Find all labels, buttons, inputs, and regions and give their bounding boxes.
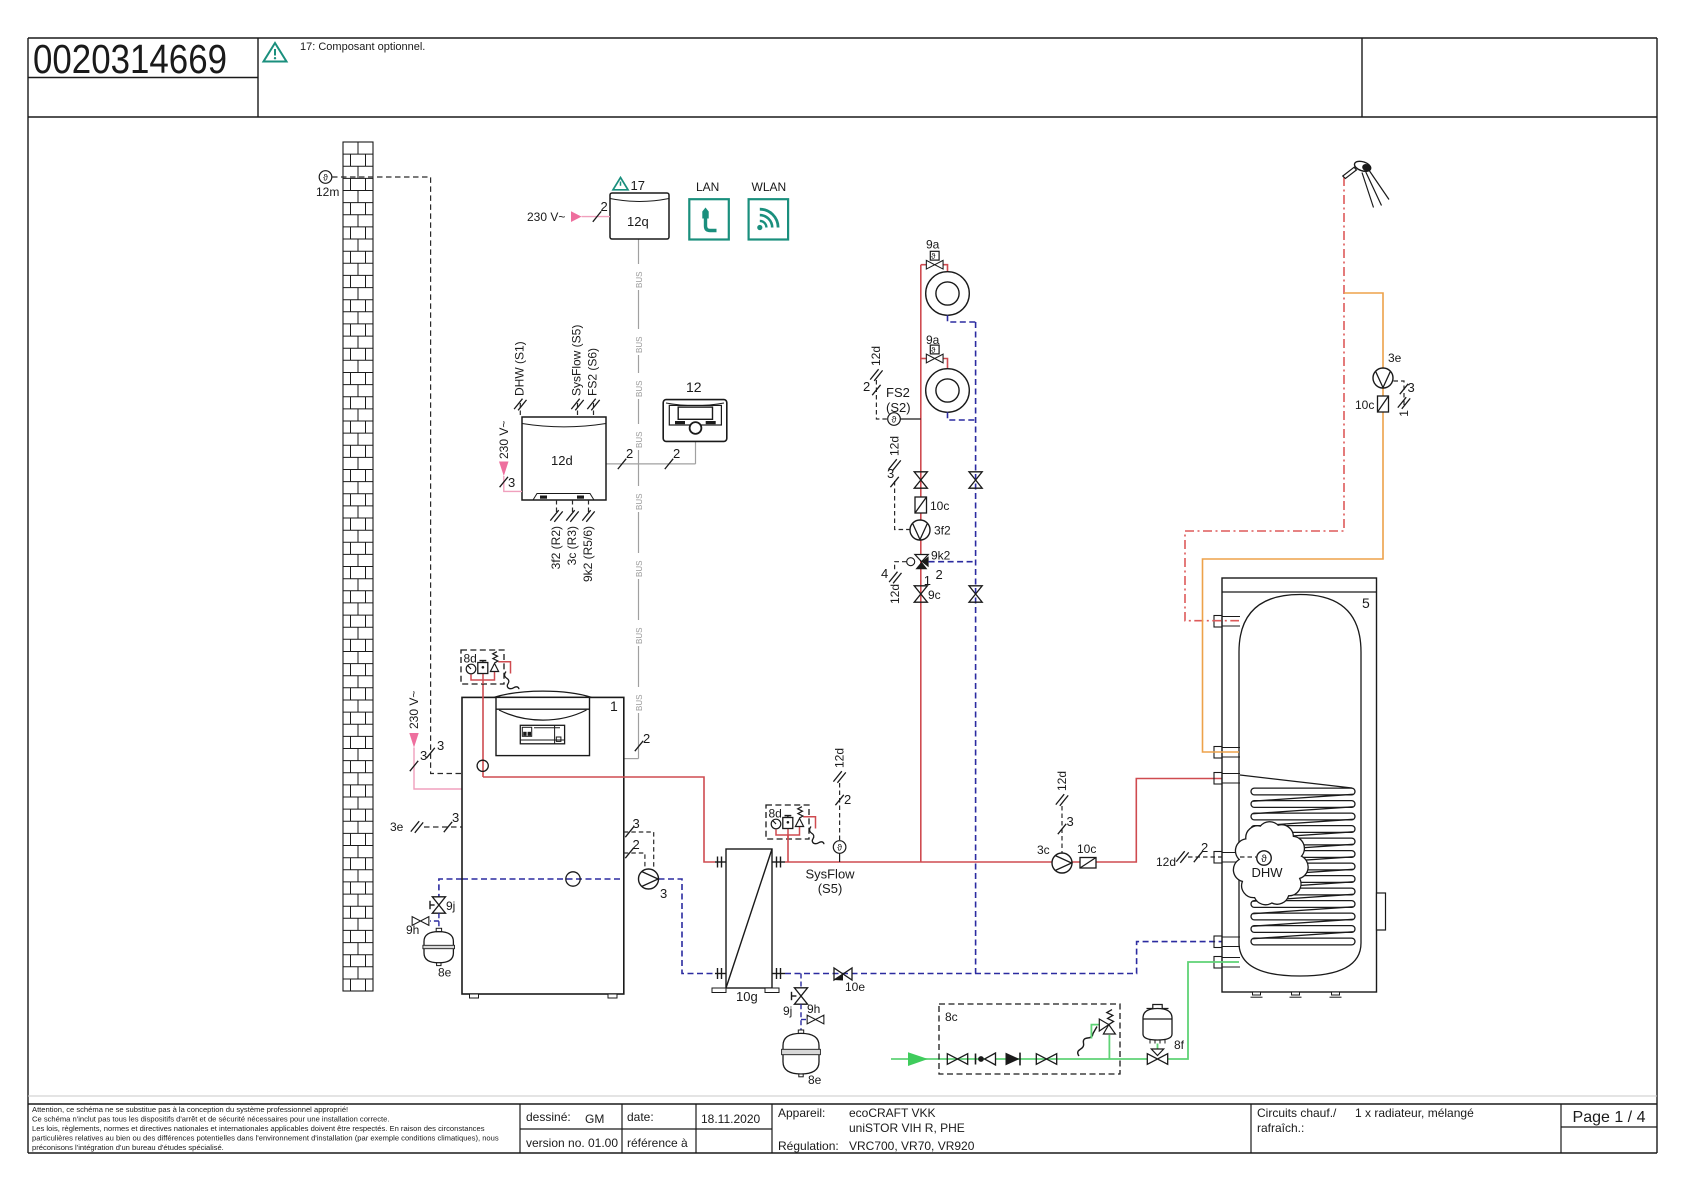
drain funnel (8c) [1078, 1027, 1097, 1057]
boiler return line (blue) through boiler [462, 878, 624, 880]
svg-text:9c: 9c [928, 588, 941, 602]
svg-text:3: 3 [508, 475, 515, 490]
warning triangle header [264, 43, 287, 62]
heater flange right side [1377, 893, 1386, 930]
title block small print [32, 1105, 499, 1152]
wire labels 3 / 1 at 3e [1394, 381, 1405, 408]
svg-text:3: 3 [1408, 380, 1415, 395]
valve 10c (flow to tank) [1077, 842, 1096, 868]
svg-text:Ce schéma n'inclut pas tous le: Ce schéma n'inclut pas tous les disposit… [32, 1115, 389, 1124]
svg-text:3f2: 3f2 [934, 524, 951, 538]
svg-text:2: 2 [633, 837, 640, 852]
svg-text:3e: 3e [390, 820, 404, 834]
svg-text:DHW (S1): DHW (S1) [513, 341, 527, 396]
cylinder 5 outer casing [1222, 578, 1377, 992]
svg-text:17: 17 [631, 178, 645, 193]
svg-text:3: 3 [887, 466, 894, 481]
svg-text:2: 2 [1201, 840, 1208, 855]
main return blue line HX to tank [785, 942, 1240, 974]
pump 3 control wires [624, 832, 654, 869]
check valve (8c) [976, 1053, 996, 1065]
main flow red line HX to tank [785, 861, 1080, 863]
boiler feet [470, 994, 479, 998]
svg-text:8e: 8e [438, 966, 452, 980]
12d top stub SysFlow (S5) [577, 403, 579, 417]
svg-text:17: Composant optionnel.: 17: Composant optionnel. [300, 41, 425, 53]
12d bottom stub 3c (R3) [572, 500, 574, 513]
svg-text:8e: 8e [808, 1073, 822, 1087]
svg-text:2: 2 [936, 567, 943, 582]
black circle on return inside boiler [566, 872, 580, 886]
svg-text:1: 1 [610, 698, 618, 714]
svg-text:FS2: FS2 [886, 385, 910, 400]
valve 9j (boiler) [432, 897, 445, 913]
radiator flow red riser [920, 265, 922, 862]
svg-text:12d: 12d [888, 584, 902, 604]
svg-text:VRC700, VR70, VR920: VRC700, VR70, VR920 [849, 1139, 975, 1153]
svg-text:12d: 12d [888, 436, 902, 456]
BUS labels [633, 264, 644, 713]
svg-text:particulières relatives au bie: particulières relatives au bien ou des d… [32, 1134, 499, 1143]
safety group 8d (boiler) [461, 650, 519, 689]
svg-text:LAN: LAN [696, 180, 719, 194]
cold water main (green) [891, 1058, 1147, 1060]
DHW circulation line (red dash-dot) [1185, 177, 1344, 621]
radiator 2 supply stub [921, 358, 927, 360]
svg-text:2: 2 [863, 379, 870, 394]
wire label 2 on 12d-12 line left [618, 459, 626, 469]
svg-text:3: 3 [1067, 814, 1074, 829]
title block top [28, 1103, 1657, 1105]
svg-text:BUS: BUS [635, 494, 644, 510]
valve 9c [914, 586, 927, 602]
backflow preventer (8c) [1006, 1053, 1021, 1066]
svg-text:3c (R3): 3c (R3) [565, 526, 579, 565]
warning 17 above 12q [613, 178, 628, 190]
svg-text:WLAN: WLAN [752, 180, 787, 194]
heat exchanger 10g [712, 849, 785, 993]
svg-text:2: 2 [626, 446, 633, 461]
thermostatic valve 9a (rad 2) [926, 354, 943, 363]
room unit 12 [663, 379, 727, 441]
valve 10e on return [834, 968, 865, 994]
connection stub cold water (green) [1214, 957, 1240, 969]
valve (8c shutoff 1) [947, 1054, 967, 1065]
svg-text:9k2: 9k2 [931, 549, 951, 563]
svg-text:Les lois, règlements, normes e: Les lois, règlements, normes et directiv… [32, 1124, 485, 1133]
wire 12m to boiler (dashed) [332, 177, 462, 774]
svg-text:DHW: DHW [1251, 865, 1283, 880]
radiator return blue riser [975, 322, 977, 974]
svg-text:préconisons l'intégration d'un: préconisons l'intégration d'un bureau d'… [32, 1143, 224, 1152]
red drop from 8d to main line [787, 835, 789, 862]
control wire to 3c [1061, 806, 1063, 853]
svg-text:3c: 3c [1037, 843, 1050, 857]
svg-text:version no.: version no. [526, 1136, 585, 1150]
safety relief valve (8c) [1091, 1010, 1115, 1059]
circulation pump 3e [1373, 368, 1393, 388]
valve 10c (circulation) [1378, 396, 1389, 412]
svg-text:date:: date: [627, 1110, 654, 1124]
svg-text:référence à: référence à [627, 1136, 688, 1150]
svg-text:8f: 8f [1174, 1038, 1185, 1052]
svg-text:rafraîch.:: rafraîch.: [1257, 1121, 1304, 1135]
svg-text:9k2 (R5/6): 9k2 (R5/6) [581, 526, 595, 582]
black port circle on boiler flow [482, 684, 484, 777]
pump 3c [1052, 853, 1072, 873]
svg-text:10c: 10c [1077, 842, 1096, 856]
svg-text:3: 3 [633, 816, 640, 831]
valve 9j (HX) [800, 974, 802, 990]
svg-text:Régulation:: Régulation: [778, 1139, 839, 1153]
svg-text:(S5): (S5) [818, 881, 843, 896]
svg-text:Appareil:: Appareil: [778, 1106, 825, 1120]
title block verticals [520, 1104, 1657, 1153]
svg-text:SysFlow: SysFlow [805, 867, 855, 882]
svg-text:0020314669: 0020314669 [33, 36, 227, 82]
svg-text:3: 3 [420, 748, 427, 763]
svg-text:GM: GM [585, 1112, 604, 1126]
controller 12d [522, 417, 606, 500]
12d top stub FS2 (S6) [593, 403, 595, 417]
boiler 1 body [462, 697, 624, 994]
svg-text:12d: 12d [869, 346, 883, 366]
svg-text:230 V~: 230 V~ [407, 691, 421, 729]
svg-text:18.11.2020: 18.11.2020 [701, 1112, 760, 1126]
valve (8c shutoff 2) [1036, 1054, 1056, 1065]
svg-text:3: 3 [437, 738, 444, 753]
svg-text:Attention, ce schéma ne se sub: Attention, ce schéma ne se substitue pas… [32, 1105, 348, 1114]
svg-text:12q: 12q [627, 214, 649, 229]
LAN box [689, 180, 729, 240]
bottom faint separator [28, 1095, 1657, 1097]
brick wall chimney [343, 142, 373, 991]
boiler flow red line to HX [483, 777, 715, 862]
wire 12d to FS2 [876, 380, 887, 419]
svg-text:ϑ: ϑ [931, 252, 936, 261]
svg-text:9j: 9j [446, 899, 455, 913]
boiler pump 3 [639, 869, 659, 889]
connection stub return (blue) [1214, 936, 1240, 948]
boiler control panel [494, 691, 592, 756]
BUS line vertical [606, 239, 696, 759]
wire label 2 on 12d-12 line right [665, 459, 673, 469]
tee valve below 8f [1147, 1049, 1167, 1064]
svg-text:2: 2 [673, 446, 680, 461]
svg-text:2: 2 [844, 792, 851, 807]
svg-text:ϑ: ϑ [931, 346, 936, 355]
shutoff valve (return riser lower) [969, 586, 982, 602]
svg-text:9j: 9j [783, 1004, 792, 1018]
connection stub circulation [1214, 616, 1240, 628]
expansion vessel 8e (HX) [782, 1030, 822, 1087]
svg-text:230 V~: 230 V~ [497, 421, 511, 459]
svg-text:12m: 12m [316, 185, 339, 199]
DHW temperature cloud [1233, 822, 1308, 905]
svg-text:5: 5 [1362, 595, 1370, 611]
security group 8c [939, 1004, 1120, 1074]
svg-text:uniSTOR VIH R, PHE: uniSTOR VIH R, PHE [849, 1121, 965, 1135]
coil inlet slant [1240, 775, 1352, 788]
mixing valve 9k2 [907, 549, 951, 589]
svg-text:10e: 10e [845, 980, 865, 994]
connection stub sensor [1214, 852, 1240, 864]
inner vessel [1239, 595, 1361, 977]
svg-text:Circuits chauf./: Circuits chauf./ [1257, 1106, 1337, 1120]
svg-text:9a: 9a [926, 238, 940, 252]
svg-text:(S2): (S2) [886, 400, 911, 415]
valve 10c (radiator circuit) [915, 497, 949, 513]
svg-text:01.00: 01.00 [588, 1136, 618, 1150]
wire 12d/3 to 3f2 [895, 481, 910, 530]
radiator 2 return [948, 412, 976, 420]
shutoff valve (return riser) [969, 472, 982, 488]
svg-text:10c: 10c [1355, 398, 1374, 412]
control unit 12q [610, 193, 669, 239]
svg-text:BUS: BUS [635, 561, 644, 577]
svg-text:BUS: BUS [635, 381, 644, 397]
valve 9h (HX) [807, 1015, 824, 1024]
connection stub DHW out (orange) [1214, 747, 1240, 759]
svg-text:12d: 12d [551, 453, 573, 468]
12d bottom stub 9k2 (R5/6) [588, 500, 590, 513]
svg-text:BUS: BUS [635, 432, 644, 448]
12d bottom stub 3f2 (R2) [556, 500, 558, 513]
pipe 9j to vessel [438, 913, 440, 928]
DHW warm line (orange) [1203, 293, 1384, 752]
thermostatic valve 9a (rad 1) [926, 260, 943, 269]
svg-text:12d: 12d [1055, 771, 1069, 791]
svg-text:SysFlow (S5): SysFlow (S5) [570, 325, 584, 396]
blue branch from 9k2 [929, 561, 976, 563]
radiator 1 return [948, 315, 976, 322]
svg-text:BUS: BUS [635, 628, 644, 644]
svg-text:12d: 12d [833, 748, 847, 768]
WLAN box [749, 180, 789, 240]
svg-text:10g: 10g [736, 989, 758, 1004]
radiator 2 [926, 369, 970, 413]
pipe to vessel 8e (HX) [800, 1004, 802, 1030]
svg-text:3: 3 [452, 810, 459, 825]
svg-text:BUS: BUS [635, 695, 644, 711]
svg-text:9h: 9h [807, 1002, 820, 1016]
svg-text:BUS: BUS [635, 337, 644, 353]
svg-text:BUS: BUS [635, 272, 644, 288]
heating coil [1251, 788, 1355, 945]
connection stub flow (red) [1214, 773, 1240, 785]
shutoff valve (flow riser) [914, 472, 927, 488]
svg-text:FS2 (S6): FS2 (S6) [586, 348, 600, 396]
cold water feed arrow [908, 1052, 928, 1066]
svg-text:10c: 10c [930, 499, 949, 513]
radiator 1 [926, 272, 970, 316]
svg-text:230 V~: 230 V~ [527, 210, 565, 224]
svg-text:2: 2 [643, 731, 650, 746]
svg-text:1 x radiateur, mélangé: 1 x radiateur, mélangé [1355, 1106, 1474, 1120]
expansion vessel 8e (boiler) [423, 928, 455, 979]
svg-text:12: 12 [686, 379, 702, 395]
valve 9h (boiler) [412, 917, 429, 926]
wire label 2 on BUS at boiler [635, 741, 643, 751]
svg-text:3f2 (R2): 3f2 (R2) [549, 526, 563, 569]
svg-text:12d: 12d [1156, 855, 1176, 869]
SysFlow sensor S5 [839, 852, 841, 862]
svg-text:ecoCRAFT VKK: ecoCRAFT VKK [849, 1106, 935, 1120]
svg-text:1: 1 [1397, 410, 1411, 417]
svg-text:3e: 3e [1388, 351, 1402, 365]
12d top stub DHW (S1) [519, 403, 521, 417]
svg-text:dessiné:: dessiné: [526, 1110, 571, 1124]
svg-text:3: 3 [660, 886, 667, 901]
shower [1343, 159, 1389, 207]
wire 4/12d to 9k2 motor [895, 562, 907, 572]
outdoor sensor 12m [316, 171, 339, 199]
svg-text:4: 4 [881, 566, 888, 581]
cylinder feet [1251, 992, 1342, 997]
radiator 1 supply stub [921, 264, 927, 266]
svg-text:9h: 9h [406, 923, 419, 937]
svg-text:9a: 9a [926, 333, 940, 347]
svg-text:8c: 8c [945, 1010, 958, 1024]
svg-text:Page 1 / 4: Page 1 / 4 [1573, 1109, 1646, 1126]
expansion vessel 8f [1143, 1005, 1185, 1053]
safety group 8d (HX) [766, 805, 824, 844]
title block fields [526, 1106, 1474, 1153]
svg-text:2: 2 [601, 199, 608, 214]
pump 3f2 [910, 520, 930, 540]
